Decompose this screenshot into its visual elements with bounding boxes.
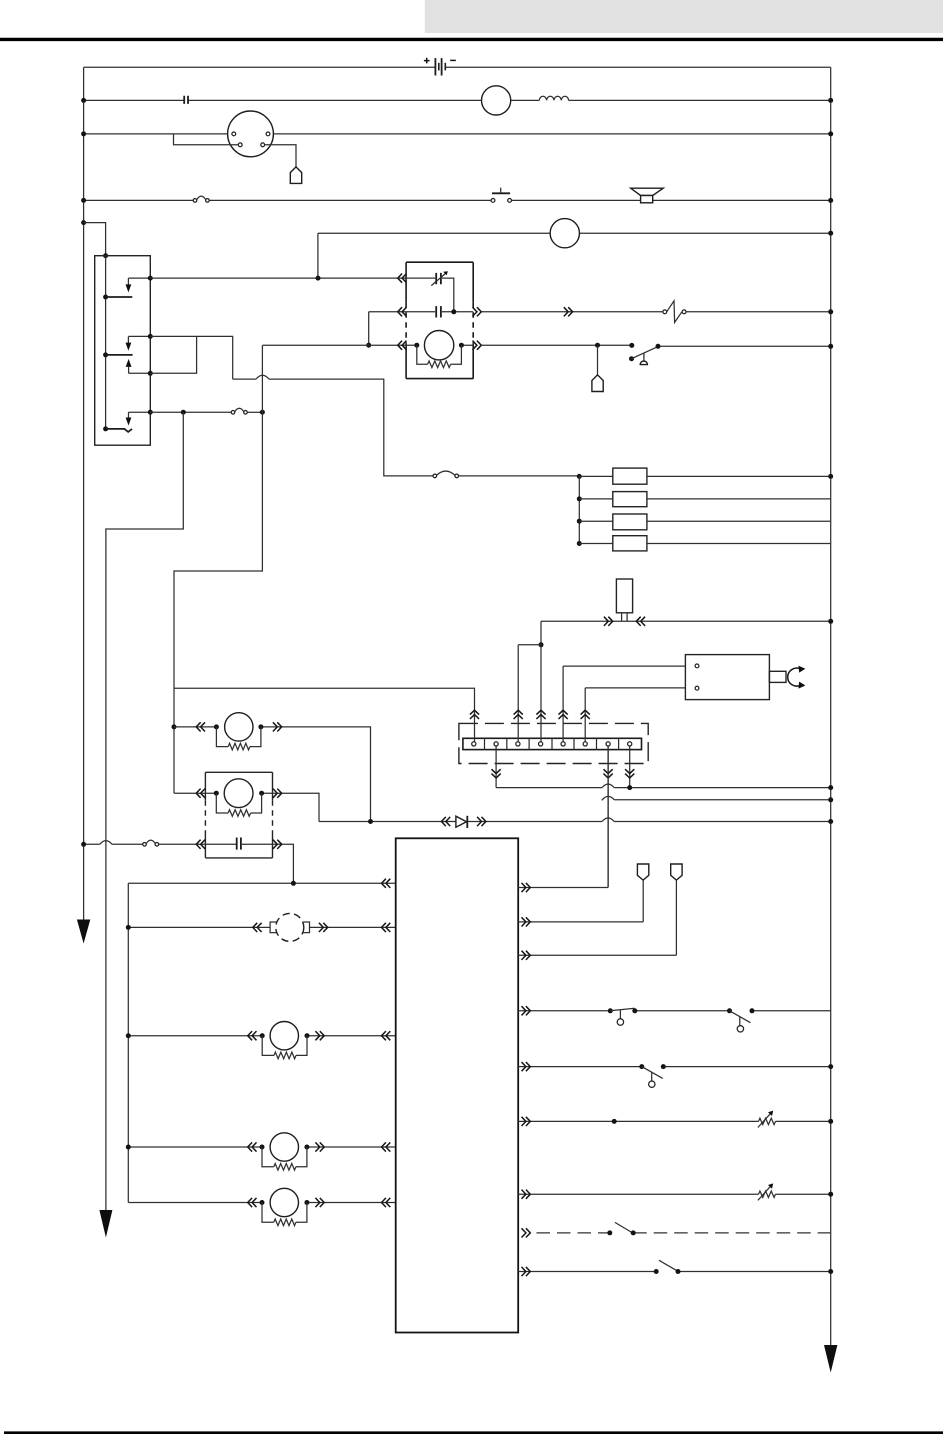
wire U1 row7: [518, 1193, 831, 1195]
chevron U1 row4: [522, 1006, 531, 1015]
fuse F2: [193, 199, 197, 203]
fuseblock bus: [578, 476, 580, 543]
chevron cap row left: [196, 840, 205, 849]
chevron U1 row2: [522, 917, 531, 926]
node U1 row9 right: [828, 1269, 833, 1274]
chevron M4 right: [315, 1031, 324, 1040]
node U1 row6 tap: [612, 1119, 617, 1124]
rotation arrow: [788, 668, 801, 686]
node U1 row7 right: [828, 1192, 833, 1197]
node motor row tap: [366, 343, 371, 348]
wire main feeder: [174, 345, 262, 793]
actuator pin 2: [695, 686, 699, 690]
blower motor M1: [214, 724, 219, 729]
wire U1 row6: [518, 1120, 831, 1122]
node horn blade: [656, 344, 661, 349]
battery plus label: [424, 58, 430, 64]
terminal 3: [516, 742, 520, 746]
wire row5: [318, 232, 831, 234]
wire row4: [84, 199, 831, 201]
wire terminal6 up: [584, 688, 586, 742]
distributor D1: [228, 111, 274, 157]
fuse F5: [613, 468, 647, 484]
wire U1 row3: [518, 880, 676, 955]
node feed branch: [81, 220, 86, 225]
fuse F9: [143, 843, 147, 847]
node ignition bus 3: [103, 426, 108, 431]
wire motor row: [262, 344, 473, 346]
wire U1 row5: [518, 1066, 831, 1068]
node capacitor row left: [81, 842, 86, 847]
terminal 2: [494, 742, 498, 746]
fuse F3: [433, 474, 437, 478]
node row3 right: [828, 131, 833, 136]
wire actuator feed 1: [563, 665, 685, 667]
gauge G1: [482, 86, 511, 115]
wire M1 row: [174, 727, 371, 822]
chevron M3 left: [253, 923, 262, 932]
wire contact3 run: [150, 411, 231, 413]
wire row5 drop: [317, 233, 319, 278]
wire box feed row: [128, 882, 395, 884]
diode D2: [456, 816, 467, 827]
wire t3 link: [518, 644, 541, 646]
chevron U1 row7: [522, 1190, 531, 1199]
speaker SP1: [631, 188, 664, 195]
actuator pin 1: [695, 664, 699, 668]
distributor pin 1: [232, 132, 236, 136]
wire row3 left: [84, 133, 232, 135]
node contact2 exit: [148, 334, 153, 339]
connector chevron relay in 1: [398, 274, 407, 283]
wire contact2: [128, 335, 150, 337]
chevron U1 row6: [522, 1117, 531, 1126]
rheostat R2: [759, 1191, 776, 1197]
chevron terminal7: [604, 769, 613, 778]
node horn right: [828, 344, 833, 349]
connector K2 body: [616, 579, 632, 613]
node fuseblock 3: [577, 519, 582, 524]
node spark right: [828, 309, 833, 314]
circuit breaker CB1: [663, 310, 667, 314]
wire contact3: [129, 411, 151, 413]
node fuse row A right: [828, 474, 833, 479]
wire horn connector drop: [597, 345, 599, 375]
chevron terminal4: [536, 710, 545, 719]
wire capacitor row: [84, 844, 294, 883]
connector chevron relay out 3: [473, 341, 482, 350]
node row2 left: [81, 98, 86, 103]
node horn tap: [595, 343, 600, 348]
chevron M4 box: [382, 1031, 391, 1040]
ignition contact arrow 2b: [126, 359, 132, 367]
wire U1 row4: [518, 1010, 831, 1012]
connector chevron relay out 2: [473, 307, 482, 316]
fuse F7: [613, 514, 647, 530]
wire terminal3 up: [517, 645, 519, 742]
connector K2 legs: [622, 613, 628, 622]
right supply bus: [830, 67, 832, 1345]
chevron U1 row9: [522, 1267, 531, 1276]
chevron U1 row1: [522, 883, 531, 892]
wire U1 row2: [518, 880, 643, 922]
door switch SW3: [608, 1008, 613, 1013]
wire horn row: [481, 344, 630, 346]
chevron M1 left: [196, 722, 205, 731]
top rule: [0, 38, 943, 41]
wiper motor resistor: [417, 345, 428, 364]
ignition contact arrow 1: [127, 278, 129, 285]
page header tab: [425, 0, 943, 33]
node ignition feed: [103, 253, 108, 258]
wire spark row: [481, 311, 830, 313]
wire ignition feed: [84, 223, 106, 256]
fuse F4: [231, 411, 235, 415]
terminal 8: [628, 742, 632, 746]
node row4 right: [828, 198, 833, 203]
chevron M5 left: [248, 1142, 257, 1151]
terminal strip body: [463, 738, 642, 749]
node M4 tap: [126, 1033, 131, 1038]
terminal 5: [561, 742, 565, 746]
connector P4: [671, 864, 682, 880]
fan motor M2: [214, 791, 219, 796]
wire U1 row1: [518, 746, 608, 888]
ignition contact bar 1: [106, 296, 133, 298]
wire row2: [84, 99, 831, 101]
wire horn right: [658, 345, 831, 347]
chevron terminal1: [470, 710, 479, 719]
ignition bus: [105, 256, 107, 429]
wire terminal1 up: [174, 688, 475, 742]
left supply bus: [83, 67, 85, 920]
wire contact1: [128, 277, 150, 279]
node row3 left: [81, 131, 86, 136]
chevron M5 box: [382, 1142, 391, 1151]
ignition contact bar 3: [106, 429, 132, 432]
wire M6 row: [128, 1202, 395, 1204]
battery B1: [434, 58, 436, 75]
wire contact2 run: [150, 336, 433, 476]
wire distributor branch: [174, 134, 239, 145]
wire hop diode row: [602, 818, 614, 822]
clock G2: [550, 219, 579, 248]
wire connector drop: [540, 621, 542, 645]
node contact3 tap: [181, 410, 186, 415]
node diode row right: [828, 819, 833, 824]
chevron cap row right: [273, 840, 282, 849]
chevron M5 right: [315, 1142, 324, 1151]
chevron terminal3: [514, 710, 523, 719]
chevron M3 box: [382, 923, 391, 932]
wire U1 row9: [518, 1271, 831, 1273]
connector chevron relay in 3: [398, 341, 407, 350]
option switch SW6: [607, 1230, 612, 1235]
wire M5 row: [128, 1146, 395, 1148]
actuator box A1: [685, 655, 769, 700]
rheostat R1: [759, 1118, 776, 1124]
wire cap row: [369, 311, 474, 313]
node ignition bus 1: [103, 295, 108, 300]
chevron terminal2: [492, 769, 501, 778]
servo motor M3: [270, 922, 277, 933]
wire U1 row8 dashed: [537, 1232, 831, 1234]
connector P1: [290, 167, 301, 184]
terminal strip dividers: [485, 738, 619, 749]
connector chevron spark mid: [564, 307, 573, 316]
chevron diode right: [477, 817, 486, 826]
node row5 right: [828, 231, 833, 236]
chevron U1 row3: [522, 951, 531, 960]
wire terminal4 up: [540, 645, 542, 742]
node contact1 exit: [148, 276, 153, 281]
wire contact2b link: [150, 336, 196, 373]
horn switch SW2: [629, 343, 634, 348]
ignition contact bar 2: [106, 354, 133, 356]
node row278 junction: [316, 276, 321, 281]
wire hop row 1: [602, 784, 614, 788]
chevron M2 right: [273, 789, 282, 798]
node contact2b exit: [148, 371, 153, 376]
wire ignition to relay: [150, 277, 406, 279]
wire diode row: [319, 821, 831, 823]
chevron M6 left: [248, 1198, 257, 1207]
wire row1 right: [445, 66, 830, 68]
node U1 row6 right: [828, 1119, 833, 1124]
wire row1 left: [84, 66, 436, 68]
terminal 6: [583, 742, 587, 746]
chevron M4 left: [248, 1031, 257, 1040]
connector P3: [637, 864, 648, 880]
kick switch SW7: [654, 1269, 659, 1274]
node M3 tap: [126, 925, 131, 930]
terminal strip outer: [459, 723, 648, 763]
wire terminal7 down: [607, 746, 609, 888]
distributor pin 2: [266, 132, 270, 136]
wiper relay box K1: [406, 262, 473, 378]
pump motor M6: [260, 1200, 265, 1205]
chevron M6 right: [315, 1198, 324, 1207]
wire terminal2 down: [495, 746, 497, 788]
wire fuse4 to feeder: [247, 411, 262, 413]
node strip row1 right: [828, 785, 833, 790]
node box feed: [291, 881, 296, 886]
terminal 4: [539, 742, 543, 746]
capacitor C3: [436, 306, 441, 317]
control unit U1: [396, 838, 519, 1332]
wiper motor M7: [414, 343, 419, 348]
node ignition bus 2: [103, 352, 108, 357]
node strip row2 right: [828, 797, 833, 802]
node M5 tap: [126, 1145, 131, 1150]
chevron U1 row8: [522, 1228, 531, 1237]
wire hop capacitor row: [100, 841, 112, 845]
node feeder tap: [260, 410, 265, 415]
inductor L1: [539, 96, 568, 100]
terminal 7: [606, 742, 610, 746]
chevron M3 right: [319, 923, 328, 932]
ignition contact arrow 3: [128, 412, 130, 418]
ignition switch box S1: [95, 256, 151, 446]
chevron box feed: [382, 879, 391, 888]
wire strip row 1: [496, 787, 831, 789]
wiper motor M4: [260, 1033, 265, 1038]
chevron M2 left: [196, 789, 205, 798]
wire accessory feeder: [106, 412, 183, 1210]
connector P2: [592, 375, 603, 392]
wire contact2b: [129, 372, 151, 374]
wire fuse row D: [579, 543, 830, 545]
wire actuator feed 2: [585, 687, 685, 689]
connector chevron K2 right: [636, 617, 645, 626]
wire hook row 2: [602, 796, 615, 800]
connector chevron K2 left: [604, 617, 613, 626]
washer motor M5: [260, 1145, 265, 1150]
bottom rule: [4, 1431, 943, 1434]
wire terminal5 up: [562, 666, 564, 742]
node t8 join: [627, 785, 632, 790]
wire cap drop: [368, 312, 370, 345]
wire distributor to connector: [265, 145, 296, 167]
node U1 row5 right: [828, 1064, 833, 1069]
wire M3 row: [128, 926, 395, 928]
connector chevron relay in 2: [398, 307, 407, 316]
node feeder M1 tap: [172, 724, 177, 729]
wire fuse row A: [579, 475, 830, 477]
node cap junction: [451, 309, 456, 314]
chevron U1 row5: [522, 1062, 531, 1071]
wire row3 right: [270, 133, 831, 135]
terminal 1: [472, 742, 476, 746]
node fuseblock 4: [577, 541, 582, 546]
ignition contact arrow 2: [127, 336, 129, 343]
chevron terminal8: [625, 769, 634, 778]
node t4 link: [539, 642, 544, 647]
chevron M1 right: [273, 722, 282, 731]
chevron diode left: [441, 817, 450, 826]
node diode row tap: [368, 819, 373, 824]
variable capacitor C2: [436, 273, 441, 284]
chevron terminal6: [581, 710, 590, 719]
capacitor C4: [237, 838, 241, 850]
wire varcap: [406, 278, 454, 312]
fuse F6: [613, 492, 647, 507]
wire M4 row: [128, 1035, 395, 1037]
wire fuse row C: [579, 520, 830, 522]
heater box K3: [205, 772, 272, 858]
wire hop over feeder: [256, 375, 269, 379]
battery minus label: [450, 59, 456, 61]
wire M2 row: [174, 793, 319, 821]
accessory feeder arrow: [99, 1210, 112, 1238]
fuse F8: [613, 536, 647, 551]
wire fuse row B: [579, 498, 830, 500]
wire strip row 2: [614, 799, 830, 801]
chevron terminal5: [559, 710, 568, 719]
door switch SW4: [727, 1008, 732, 1013]
distributor pin 3: [238, 143, 242, 147]
left bus ground arrow: [77, 920, 90, 944]
hood switch SW5: [639, 1064, 644, 1069]
wire left riser: [127, 883, 129, 1202]
actuator shaft: [769, 671, 786, 682]
horn button SW1: [491, 199, 495, 203]
node fuseblock 2: [577, 496, 582, 501]
node contact3 exit: [148, 410, 153, 415]
distributor pin 4: [261, 143, 265, 147]
capacitor C1: [184, 96, 188, 104]
wire connector row: [541, 620, 831, 622]
node row4 left: [81, 198, 86, 203]
node connector row right: [828, 619, 833, 624]
wire terminal8 down: [629, 746, 631, 788]
chevron M6 box: [382, 1198, 391, 1207]
right bus ground arrow: [824, 1345, 837, 1373]
wire fuse to block: [459, 475, 580, 477]
node fuseblock feed: [577, 474, 582, 479]
node row2 right: [828, 98, 833, 103]
